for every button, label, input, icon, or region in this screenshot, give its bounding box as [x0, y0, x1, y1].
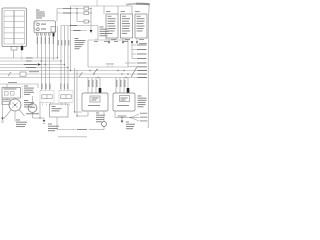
label on fan bus — [118, 115, 127, 118]
wire bus line 4 — [0, 67, 68, 69]
connector arrow A1 black — [90, 30, 93, 33]
pin wire color labels (vertical smudges) — [37, 37, 54, 45]
distributor D1 circle — [9, 99, 21, 111]
coil pack CP2 below dashes — [62, 103, 70, 107]
ground drop G2 — [121, 117, 124, 123]
distributor lead mid — [14, 111, 16, 122]
PCM bottom corner wire — [128, 65, 147, 68]
label PNK/BLK — [29, 70, 39, 73]
wire top rail — [71, 5, 133, 7]
label text below U3 — [96, 113, 105, 123]
DIS connector black 2 — [127, 88, 130, 93]
splice slash right — [131, 66, 138, 77]
wire bus riser 1 — [57, 26, 59, 58]
bus dots right — [123, 70, 128, 75]
distributor lead left — [4, 110, 11, 119]
wire corner into riser 2 — [61, 26, 98, 41]
wire fan 1 — [131, 114, 139, 118]
coil pack CP1 below dashes — [43, 103, 51, 107]
wire bus riser 2 — [60, 26, 62, 91]
wire alternator to ground — [33, 112, 45, 118]
component on line F1 — [20, 72, 26, 76]
wire fan 3 — [131, 118, 139, 122]
fuse box FB1 outer — [2, 8, 27, 47]
wire line y84 — [0, 84, 38, 88]
label text ignition control module — [36, 10, 45, 19]
ground symbol GND2 — [43, 118, 46, 124]
wire drop to relay box 3 — [131, 6, 133, 14]
wire coil ground — [39, 102, 41, 119]
wire pair to DIS 2 — [77, 70, 88, 116]
label text sensor block M — [100, 27, 109, 37]
label text ground left — [16, 120, 27, 128]
PCM bottom pin labels — [106, 64, 114, 68]
wire from coil area down — [56, 117, 58, 130]
fuse output fan (right) — [125, 41, 147, 63]
coil pack CP1 box — [40, 91, 54, 103]
caption text — [58, 136, 87, 137]
resistor R1 — [84, 7, 89, 10]
wire pair to DIS 1 — [75, 68, 83, 112]
wire module pin D down — [48, 44, 50, 91]
ignition module U1 body — [34, 21, 56, 33]
wire drop to relay box 2 — [117, 6, 119, 14]
wire long bus 2 — [0, 73, 147, 75]
label on y84 — [8, 81, 17, 84]
junction dots DIS wires — [74, 111, 78, 116]
splice slash 1 — [93, 69, 98, 75]
connector C1 black pin — [21, 46, 23, 50]
ladder rung y21.5 — [77, 21, 91, 23]
wire U3 bottom to splice — [103, 111, 105, 122]
label text coil pack — [48, 124, 59, 132]
resistor R2 — [84, 12, 89, 15]
bus labels left — [24, 58, 37, 68]
wire bus line 3 — [0, 64, 65, 66]
coil pack CP2 pin labels — [60, 84, 68, 90]
relay box K2 — [121, 14, 133, 38]
splice S1 circle — [102, 122, 107, 127]
wire from fuse box down — [13, 50, 15, 58]
wire long bus 1 — [0, 70, 147, 72]
wire drop to relay box 1 — [103, 6, 105, 14]
fuse box connector pins — [11, 47, 17, 51]
arrow below K2 — [122, 38, 130, 44]
alternator G1 — [28, 96, 37, 112]
fan labels — [140, 113, 148, 122]
DIS wires down group1 — [88, 78, 100, 94]
small box below switch — [2, 100, 10, 105]
wire stub with label y30 — [71, 30, 88, 32]
DIS module box U4 — [113, 93, 135, 111]
wire bus riser 3 — [64, 26, 66, 91]
wire BLK/WHT to riser top — [56, 9, 58, 22]
resistor R3 — [84, 20, 89, 23]
wire bus line 2 — [0, 60, 61, 62]
wire bus line 1 — [0, 57, 58, 59]
ladder left vertical x77 — [76, 9, 78, 22]
long bus dots — [70, 70, 127, 78]
ladder junction dots — [70, 8, 92, 26]
relay designators above boxes — [106, 10, 140, 13]
wire PNK to riser — [57, 9, 91, 14]
wire switch down — [7, 84, 23, 100]
splice slash 2 — [79, 72, 83, 77]
label text right of U4 — [138, 96, 147, 108]
label BLK/WHT 1 — [63, 7, 70, 10]
coil pack CP2 box — [59, 91, 73, 103]
label text ICM left — [24, 86, 34, 95]
wire fan 2 — [131, 117, 139, 119]
wire module pin C down — [44, 44, 46, 91]
label on wire y24 — [70, 24, 77, 27]
long bus right labels — [138, 70, 148, 78]
label PNK 2 — [63, 12, 70, 15]
DIS wire labels group1 — [88, 80, 97, 87]
label BLK/WHT y29 — [74, 29, 81, 32]
wire module pin A down — [37, 44, 41, 58]
relay box K1 — [106, 14, 118, 38]
riser pin labels — [58, 40, 70, 46]
fan junction dot — [130, 117, 132, 119]
ignition module pins — [37, 33, 55, 36]
wire long bus 3 — [0, 77, 147, 79]
arrow below K1 — [108, 38, 116, 44]
wire fan bus — [115, 117, 131, 119]
wire module pin B down — [40, 44, 42, 91]
wire ground bus bottom — [57, 126, 104, 129]
PCM module box U2 — [88, 40, 128, 67]
bus junction dots — [41, 57, 69, 68]
label text distributor — [24, 100, 34, 107]
label ALTERNATOR — [26, 112, 39, 115]
wire ladder vertical x91 — [90, 9, 92, 31]
page edge curl — [126, 4, 150, 128]
DIS wires down group2 — [116, 78, 128, 94]
PCM top pin ticks — [94, 39, 128, 42]
coil relay box — [50, 104, 69, 117]
DIS module box U3 — [82, 93, 108, 111]
label text PCM — [75, 38, 86, 49]
wire left edge ground — [1, 98, 4, 123]
ignition switch box SW1 — [2, 88, 21, 99]
wire module pin E down — [52, 37, 54, 61]
wire U4 bottom drop — [114, 111, 116, 118]
wire stub to page top — [96, 0, 98, 6]
labels right of arrows — [139, 42, 147, 45]
label on ground bus — [77, 128, 87, 131]
splice slash 3 — [8, 72, 11, 76]
wire bus riser 4 — [67, 26, 69, 91]
relay box K3 — [135, 14, 147, 38]
splice arrow on bus line 3 — [38, 63, 41, 66]
arrow below K3 — [136, 38, 144, 44]
DIS wire labels group2 — [116, 80, 125, 87]
label text ground right — [126, 122, 135, 130]
coil pack CP1 pin labels — [42, 84, 51, 90]
wire dashed from black pin — [21, 51, 23, 61]
wire main riser — [70, 6, 72, 71]
distributor lead right — [19, 110, 25, 117]
DIS connector black 1 — [99, 88, 102, 93]
fuse box FB1 inner grid — [4, 11, 25, 45]
